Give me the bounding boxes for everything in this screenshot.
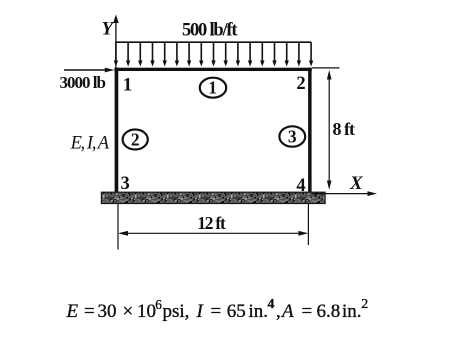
svg-text:2: 2 bbox=[296, 74, 305, 94]
svg-text:4: 4 bbox=[268, 296, 275, 311]
svg-text:×: × bbox=[123, 301, 134, 322]
svg-text:psi,: psi, bbox=[163, 301, 190, 322]
svg-text:,: , bbox=[276, 301, 281, 322]
svg-text:=: = bbox=[302, 301, 313, 322]
svg-text:I: I bbox=[196, 301, 205, 322]
svg-text:4: 4 bbox=[296, 176, 305, 196]
svg-text:6: 6 bbox=[155, 297, 162, 312]
svg-text:30: 30 bbox=[98, 301, 117, 322]
svg-text:12 ft: 12 ft bbox=[197, 213, 226, 233]
svg-text:E, I, A: E, I, A bbox=[70, 133, 110, 153]
svg-text:500 lb/ft: 500 lb/ft bbox=[182, 21, 238, 41]
svg-text:X: X bbox=[349, 173, 364, 194]
svg-text:2: 2 bbox=[131, 129, 140, 149]
svg-text:Y: Y bbox=[102, 18, 116, 39]
svg-text:=: = bbox=[211, 301, 222, 322]
svg-text:3000 lb: 3000 lb bbox=[60, 73, 107, 92]
svg-text:=: = bbox=[84, 301, 95, 322]
svg-text:65: 65 bbox=[227, 301, 246, 322]
svg-text:10: 10 bbox=[137, 301, 156, 322]
svg-text:3: 3 bbox=[288, 126, 297, 146]
svg-text:in.: in. bbox=[342, 301, 362, 322]
svg-text:8 ft: 8 ft bbox=[333, 119, 356, 139]
svg-text:1: 1 bbox=[123, 75, 133, 96]
svg-text:E: E bbox=[66, 301, 79, 322]
svg-text:6.8: 6.8 bbox=[317, 301, 341, 322]
svg-text:1: 1 bbox=[208, 78, 217, 98]
svg-text:A: A bbox=[280, 301, 294, 322]
svg-text:3: 3 bbox=[121, 174, 130, 194]
svg-text:2: 2 bbox=[361, 297, 368, 312]
svg-text:in.: in. bbox=[249, 301, 269, 322]
